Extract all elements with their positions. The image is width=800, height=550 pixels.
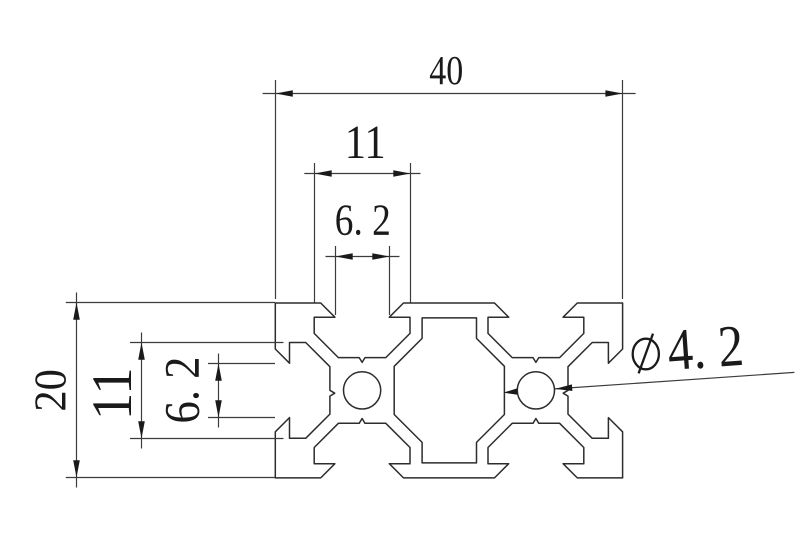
dim 6.2 top extension lines — [336, 246, 390, 315]
svg-text:40: 40 — [429, 47, 463, 93]
phi symbol — [633, 334, 659, 374]
svg-text:4. 2: 4. 2 — [665, 312, 745, 383]
dim 11 left line — [141, 333, 143, 449]
dim 40 extension lines — [276, 80, 623, 299]
profile outline 20x40 V-slot — [275, 303, 622, 478]
svg-text:11: 11 — [345, 116, 386, 169]
dim 11 left extension lines — [130, 343, 284, 439]
dim 40 line — [263, 93, 636, 95]
dim 6.2 top line — [326, 256, 400, 258]
dim 40 arrows — [276, 90, 623, 97]
leader arrows — [503, 384, 572, 394]
dim 20 arrows — [73, 303, 80, 478]
central cavity — [394, 318, 504, 463]
dim 6.2 left line — [218, 354, 220, 428]
dim 20 line — [76, 293, 78, 488]
leader line phi 4.2 — [555, 372, 794, 389]
dim 6.2 left arrows — [215, 364, 222, 418]
svg-text:6. 2: 6. 2 — [154, 357, 210, 424]
svg-text:20: 20 — [26, 369, 76, 412]
dim 6.2 top arrows — [336, 253, 390, 260]
dim 11 left arrows — [138, 343, 145, 439]
svg-text:11: 11 — [81, 367, 144, 420]
dim 6.2 left extension lines — [208, 364, 275, 418]
hole right cell — [517, 372, 554, 409]
hole left cell — [344, 372, 381, 409]
dim 11 top extension lines — [315, 163, 411, 303]
dim 11 top line — [304, 173, 420, 175]
svg-text:6. 2: 6. 2 — [335, 196, 391, 245]
dim 20 extension lines — [66, 303, 275, 478]
dim 11 top arrows — [315, 170, 411, 177]
